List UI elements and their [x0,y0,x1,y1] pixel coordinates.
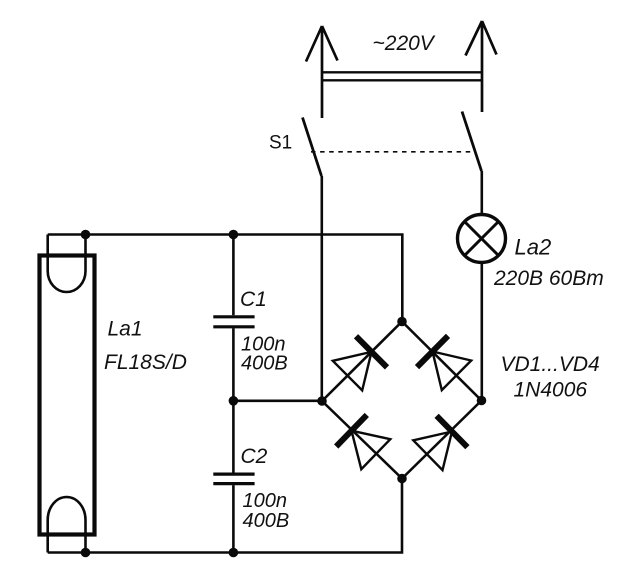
La1 bottom filament [48,497,86,553]
node capacitor midpoint [229,396,239,406]
wire mid node to AC node left [233,399,322,402]
wire C1 top [232,235,235,316]
wire bottom bus [48,479,402,553]
wire C2 bottom [232,485,235,552]
diode VD3 bottom-left [336,415,390,469]
diode VD4 bottom-right [413,416,467,470]
La1 top filament [48,235,86,293]
switch S1 blade B [462,112,482,172]
svg-text:La1: La1 [108,318,143,341]
svg-text:1N4006: 1N4006 [514,379,588,402]
bridge wire bottom-left [322,401,402,479]
bridge wire top-right [402,322,482,401]
power arrow right [466,21,497,112]
diode VD1 top-left [333,336,387,390]
node bridge DC- bottom [397,474,407,484]
node lamp top pin [81,230,91,240]
node bridge DC+ top [397,317,407,327]
svg-text:C2: C2 [241,445,268,468]
node bridge AC left [317,396,327,406]
capacitor C2 [213,474,254,484]
wire mid node to C2 [232,401,235,473]
switch S1 blade A [303,118,322,177]
svg-text:400B: 400B [243,510,290,532]
switch coupling dashed line [311,151,473,153]
bridge wire bottom-right [402,401,482,479]
wire switch B output down to lamp La2 [480,171,483,215]
svg-text:C1: C1 [240,288,267,311]
bridge wire top-left [322,322,402,402]
wire top bus (lamp to DC+ corner) [48,235,403,322]
svg-text:La2: La2 [515,235,552,260]
node bridge AC right [477,396,487,406]
lamp La2 [458,215,506,263]
svg-text:FL18S/D: FL18S/D [104,351,187,374]
diode VD2 top-right [417,336,471,390]
mains double line [322,72,482,80]
capacitor C1 [213,317,254,327]
wire C1 bottom to mid node [232,328,235,401]
wire lamp La2 to AC node right [480,263,483,401]
wire switch A output down to AC node left [320,176,323,401]
svg-text:100n: 100n [243,490,288,512]
node C1 top junction [229,230,239,240]
svg-text:VD1...VD4: VD1...VD4 [501,353,600,376]
power arrow left [306,26,338,118]
svg-text:~220V: ~220V [373,32,436,55]
node lamp bottom pin [81,548,91,558]
svg-text:400B: 400B [241,353,288,375]
lamp La1 tube [40,256,95,535]
svg-text:S1: S1 [269,133,292,154]
node C2 bottom junction [229,548,239,558]
svg-text:220B 60Bm: 220B 60Bm [493,267,604,290]
